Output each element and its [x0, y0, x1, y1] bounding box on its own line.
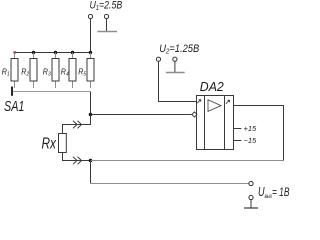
- ground GND1: [97, 31, 117, 33]
- chevron marks on Rx bottom wire: [73, 157, 82, 165]
- svg-text:Uвых= 1В: Uвых= 1В: [258, 186, 290, 201]
- op-amp divider left: [204, 96, 206, 150]
- terminal X4 (U2 ground): [173, 57, 177, 61]
- op-amp divider right: [224, 96, 226, 150]
- svg-text:R2: R2: [21, 67, 29, 78]
- wire top rail: [15, 52, 91, 54]
- wire to output terminal: [91, 183, 249, 185]
- switch SA1 common bar: [13, 91, 91, 93]
- terminal X3 (U2 input): [156, 57, 160, 61]
- pin +15: [234, 128, 242, 130]
- svg-text:R4: R4: [61, 67, 69, 78]
- ground GND3: [244, 207, 258, 209]
- op-amp triangle: [208, 100, 221, 112]
- svg-text:Rx: Rx: [42, 134, 57, 152]
- wire U2 to ground: [174, 61, 176, 72]
- wire Rx bottom to node B: [63, 153, 91, 161]
- node rail-R4: [71, 51, 74, 54]
- arrow mark output column: [226, 100, 230, 104]
- svg-text:R3: R3: [43, 67, 51, 78]
- svg-text:−15: −15: [244, 136, 258, 145]
- terminal X5 (output): [249, 181, 253, 185]
- chevron marks on Rx top wire: [73, 121, 82, 129]
- terminal X2 (U1 ground): [104, 14, 108, 18]
- node red junction at R1 top: [13, 51, 16, 53]
- resistor R4: [61, 53, 76, 89]
- switch SA1 wiper tick: [11, 87, 13, 96]
- node A: [89, 113, 93, 117]
- inverting input diamond: [192, 112, 197, 117]
- terminal X1 (U1 input): [88, 14, 92, 18]
- node B: [89, 159, 93, 163]
- svg-text:SA1: SA1: [4, 97, 24, 114]
- svg-text:+15: +15: [244, 124, 258, 133]
- wire switch to node A: [90, 92, 92, 115]
- svg-text:R5: R5: [78, 67, 86, 78]
- svg-text:R1: R1: [2, 67, 10, 78]
- wire terminal to ground: [106, 19, 108, 32]
- node rail-R5: [89, 51, 92, 54]
- svg-text:DA2: DA2: [200, 80, 224, 94]
- wire to ground: [250, 200, 252, 208]
- ground GND2: [166, 72, 185, 74]
- svg-text:U1=2.5В: U1=2.5В: [90, 0, 123, 12]
- wire U2 terminal to DA2 non-inverting input: [159, 61, 197, 101]
- wire node A to DA2 inverting input: [91, 114, 192, 116]
- resistor R1: [2, 53, 18, 89]
- wire feedback node B to DA2 output: [91, 160, 284, 162]
- node rail-R2: [32, 51, 35, 54]
- wire node B down: [90, 161, 92, 184]
- node rail-R3: [54, 51, 57, 54]
- svg-text:U2=1.25В: U2=1.25В: [159, 43, 199, 55]
- wire U1 terminal to rail: [90, 19, 92, 53]
- resistor R3: [43, 53, 59, 89]
- resistor R5: [78, 53, 94, 89]
- op-amp DA2 body: [197, 96, 234, 150]
- pin -15: [234, 140, 242, 142]
- resistor Rx: [59, 134, 67, 153]
- wire node A down to Rx top: [63, 115, 91, 134]
- resistor R2: [21, 53, 37, 89]
- arrow mark left column: [197, 100, 201, 104]
- terminal X6 (output ground): [249, 195, 253, 199]
